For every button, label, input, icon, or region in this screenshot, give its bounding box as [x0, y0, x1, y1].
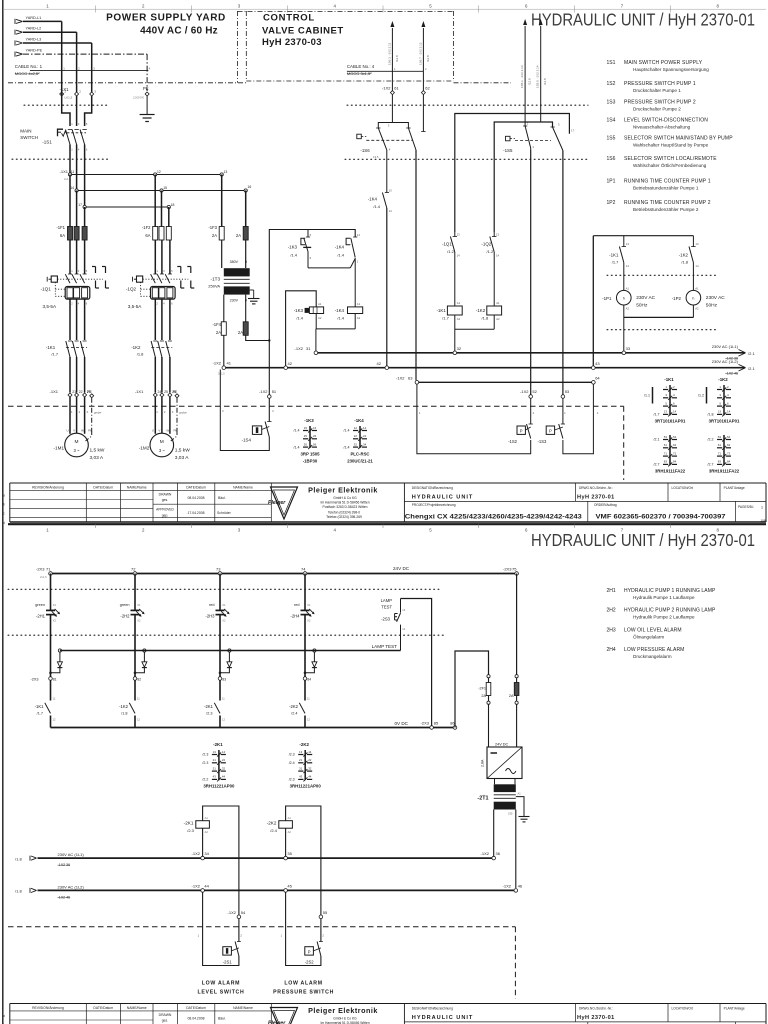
- svg-text:34: 34: [363, 442, 367, 446]
- svg-text:-1F4: -1F4: [212, 322, 221, 327]
- svg-text:/2.4: /2.4: [291, 712, 297, 716]
- svg-text:-2K1: -2K1: [184, 821, 194, 826]
- dotted separator: [607, 329, 718, 331]
- svg-text:45: 45: [287, 883, 292, 888]
- terminal -1X2 55: [319, 910, 328, 919]
- svg-text:/1.4: /1.4: [296, 315, 303, 320]
- svg-text:08.04.2008: 08.04.2008: [188, 1017, 205, 1021]
- svg-text:108: 108: [760, 518, 765, 522]
- svg-text:-1X2: -1X2: [481, 851, 490, 856]
- svg-text:72: 72: [131, 566, 136, 571]
- svg-text:3,03 A: 3,03 A: [90, 455, 104, 461]
- svg-text:NAME/Name: NAME/Name: [127, 485, 147, 489]
- svg-text:-1K1: -1K1: [609, 252, 619, 257]
- feed bracket A: [455, 114, 570, 233]
- svg-text:24V DC: 24V DC: [393, 566, 410, 571]
- svg-text:W: W: [81, 429, 84, 433]
- svg-text:12: 12: [157, 170, 161, 174]
- svg-text:CABLE No.: 1: CABLE No.: 1: [15, 64, 43, 69]
- svg-text:/1.8: /1.8: [482, 315, 489, 320]
- svg-text:-1K4: -1K4: [335, 245, 345, 250]
- svg-text:-1X2: -1X2: [259, 389, 268, 394]
- svg-text:gn/ye: gn/ye: [179, 411, 187, 415]
- svg-text:/2.3: /2.3: [289, 778, 295, 782]
- svg-text:PE: PE: [87, 390, 92, 394]
- svg-text:71: 71: [46, 566, 51, 571]
- svg-text:/1.8: /1.8: [15, 889, 22, 894]
- svg-text:HyH 2370-01: HyH 2370-01: [577, 1015, 615, 1021]
- svg-text:50Hz: 50Hz: [706, 302, 718, 308]
- ground at -2T1: [516, 797, 530, 822]
- svg-text:VALVE CABINET: VALVE CABINET: [262, 25, 344, 36]
- rail 230V AC (1L2) sheet2: [15, 884, 516, 899]
- terminal strip -2X3 71-74: [36, 566, 307, 579]
- svg-text:17.04.2008: 17.04.2008: [188, 511, 205, 515]
- contact table -1K1 main: [644, 377, 686, 424]
- svg-text:64: 64: [595, 375, 600, 380]
- svg-text:21: 21: [213, 758, 217, 762]
- svg-text:1P1: 1P1: [607, 179, 616, 185]
- svg-text:/1.4: /1.4: [337, 252, 344, 257]
- svg-text:/1.8: /1.8: [681, 259, 688, 264]
- svg-text:2H3: 2H3: [607, 628, 616, 634]
- svg-text:-1Q1: -1Q1: [41, 287, 52, 292]
- svg-text:/12.8: /12.8: [528, 78, 532, 85]
- svg-text:HYDRAULIC UNIT: HYDRAULIC UNIT: [412, 495, 474, 501]
- svg-text:-1X2 46: -1X2 46: [725, 371, 738, 375]
- svg-text:-2H2: -2H2: [120, 613, 130, 618]
- svg-text:-1X2 46: -1X2 46: [58, 895, 71, 899]
- svg-text:-2F1: -2F1: [478, 686, 486, 690]
- svg-text:/2.7: /2.7: [654, 463, 660, 467]
- svg-text:/1.4: /1.4: [294, 429, 300, 433]
- svg-text:NAME/Name: NAME/Name: [127, 1006, 147, 1010]
- svg-text:0: 0: [245, 260, 247, 264]
- svg-text:2H2: 2H2: [607, 608, 616, 614]
- dotted separator: [345, 158, 588, 160]
- remote wires -1S5: [520, 19, 547, 122]
- contactor main contacts -1K1: [46, 341, 87, 393]
- svg-text:82: 82: [137, 677, 141, 681]
- svg-text:LEVEL SWITCH: LEVEL SWITCH: [198, 989, 245, 995]
- svg-text:-1S1: -1S1: [42, 140, 52, 145]
- wire YARD-L2 to -1X1: [23, 32, 77, 70]
- svg-text:42: 42: [288, 361, 293, 366]
- isolating transformer -2T1: [477, 779, 521, 816]
- svg-text:A1: A1: [626, 286, 630, 290]
- svg-text:32: 32: [354, 442, 358, 446]
- svg-text:/1.8: /1.8: [137, 351, 144, 356]
- contact table -1K2 main: [698, 377, 740, 424]
- svg-text:/2.4: /2.4: [289, 761, 295, 765]
- svg-text:-2K1: -2K1: [204, 704, 214, 709]
- svg-text:14: 14: [695, 264, 699, 268]
- svg-text:71: 71: [664, 451, 668, 455]
- dotted separator: [8, 634, 445, 636]
- ground at -1T3: [248, 290, 260, 304]
- svg-text:1S5.5 -1X2 2.14: 1S5.5 -1X2 2.14: [536, 65, 540, 88]
- indicator lamp -2H3 (red): [205, 574, 229, 678]
- overload relay -1Q2 3,5-5A: [126, 267, 194, 309]
- running time counter -1P1: [602, 286, 656, 317]
- svg-text:-2X3: -2X3: [36, 566, 45, 571]
- legend sheet2: [607, 588, 716, 659]
- terminal strip -1X1 21-23 PE: [50, 389, 94, 398]
- svg-text:/2.1: /2.1: [748, 351, 755, 356]
- svg-text:52: 52: [532, 389, 537, 394]
- svg-text:/2.3: /2.3: [202, 753, 208, 757]
- svg-text:16: 16: [248, 185, 252, 189]
- fuse -2F1 2A: [478, 675, 491, 747]
- distribution row 11-12-13: [60, 169, 228, 181]
- pressure switch -1S2: [419, 411, 535, 444]
- svg-text:/1.1: /1.1: [644, 394, 650, 398]
- svg-text:-1K3: -1K3: [294, 308, 304, 313]
- lamp test diode branch -2H2: [134, 649, 147, 674]
- terminals -1X2 61 62: [382, 71, 430, 94]
- svg-text:44: 44: [222, 775, 226, 779]
- svg-text:1S6.7 -1X2 2.12: 1S6.7 -1X2 2.12: [418, 42, 422, 65]
- svg-text:75: 75: [512, 566, 517, 571]
- svg-text:Druckmangelalarm: Druckmangelalarm: [633, 654, 672, 659]
- svg-text:3,5-5A: 3,5-5A: [43, 304, 57, 309]
- svg-text:31: 31: [213, 766, 217, 770]
- svg-text:44: 44: [308, 775, 312, 779]
- svg-text:55: 55: [323, 910, 328, 915]
- svg-text:13: 13: [213, 750, 217, 754]
- svg-text:W: W: [166, 429, 169, 433]
- svg-text:A2: A2: [626, 307, 630, 311]
- svg-text:34: 34: [204, 851, 209, 856]
- svg-text:LOW ALARM: LOW ALARM: [202, 981, 240, 987]
- svg-text:DATE/Datum: DATE/Datum: [93, 485, 113, 489]
- svg-text:DRAWN: DRAWN: [159, 1013, 172, 1017]
- svg-text:HYDRAULIC UNIT: HYDRAULIC UNIT: [412, 1015, 474, 1021]
- svg-text:32: 32: [222, 766, 226, 770]
- svg-text:-1K4: -1K4: [335, 308, 345, 313]
- svg-text:55: 55: [304, 442, 308, 446]
- svg-text:-2H1: -2H1: [36, 613, 46, 618]
- svg-text:HYDRAULIC PUMP 2 RUNNING L: HYDRAULIC PUMP 2 RUNNING LAMP: [624, 608, 716, 614]
- svg-text:24V DC: 24V DC: [495, 743, 509, 747]
- svg-text:red: red: [209, 603, 215, 607]
- yard terminal YARD-PE: [15, 49, 43, 57]
- svg-text:YARD-PE: YARD-PE: [26, 49, 43, 53]
- wire -2T1 to terminal 46: [515, 810, 517, 889]
- svg-text:3,03 A: 3,03 A: [175, 455, 189, 461]
- svg-text:-1P1: -1P1: [602, 296, 612, 301]
- running time counter -1P2: [672, 286, 726, 317]
- svg-text:14: 14: [727, 410, 731, 414]
- svg-text:14: 14: [308, 750, 312, 754]
- svg-text:21: 21: [299, 758, 303, 762]
- svg-text:43: 43: [213, 775, 217, 779]
- sheet1 bottom ruler: [46, 524, 719, 532]
- counters feed bracket: [593, 235, 693, 237]
- svg-text:-1X2: -1X2: [228, 910, 237, 915]
- svg-text:230V AC: 230V AC: [636, 295, 655, 301]
- svg-text:-1X1: -1X1: [60, 169, 69, 174]
- wires fuses to overload -1Q2: [155, 240, 170, 274]
- svg-text:HYDRAULIC PUMP 1 RUNNING L: HYDRAULIC PUMP 1 RUNNING LAMP: [624, 588, 716, 594]
- svg-text:22: 22: [308, 758, 312, 762]
- svg-text:RUNNING TIME COUNTER PUMP 1: RUNNING TIME COUNTER PUMP 1: [624, 179, 711, 185]
- loop 63 to -1S2: [417, 384, 531, 454]
- svg-text:250VA: 250VA: [208, 284, 220, 289]
- svg-text:-2H4: -2H4: [290, 613, 300, 618]
- wire -1S5 pole1 to terminal 52: [530, 150, 532, 395]
- svg-text:/1.7: /1.7: [654, 413, 660, 417]
- counters bottom bracket: [624, 316, 694, 318]
- terminals -1X2 44 45 46: [192, 883, 523, 892]
- terminal -2X3 82: [133, 677, 141, 682]
- svg-text:3RH19111FA22: 3RH19111FA22: [709, 469, 740, 474]
- svg-text:DATE/Datum: DATE/Datum: [186, 1006, 206, 1010]
- svg-text:2A: 2A: [212, 233, 217, 238]
- svg-text:-1M1: -1M1: [54, 446, 65, 451]
- svg-text:33: 33: [626, 346, 631, 351]
- svg-text:/1.7: /1.7: [442, 315, 449, 320]
- svg-text:GmbH & Co KG: GmbH & Co KG: [333, 1016, 357, 1020]
- fuse 2A (secondary): [238, 295, 248, 336]
- distribution row 14-15-16: [70, 185, 251, 192]
- svg-text:P: P: [549, 429, 552, 434]
- svg-text:54: 54: [241, 910, 246, 915]
- dotted separator: [12, 158, 108, 160]
- relay contact -2K1 for -2H3: [204, 680, 225, 728]
- svg-text:Hydraulik Pumpe 2 Lauflampe: Hydraulik Pumpe 2 Lauflampe: [633, 615, 695, 620]
- svg-text:13: 13: [457, 233, 461, 237]
- svg-text:1: 1: [761, 506, 763, 510]
- svg-text:/1.2: /1.2: [698, 394, 704, 398]
- svg-text:V: V: [158, 429, 160, 433]
- indicator lamp -2H2 (green): [120, 574, 145, 678]
- svg-text:2,8A: 2,8A: [481, 759, 485, 767]
- svg-text:50Hz: 50Hz: [636, 302, 648, 308]
- svg-text:A1: A1: [457, 301, 461, 305]
- svg-text:M: M: [75, 439, 79, 445]
- svg-text:LK1,5: LK1,5: [65, 95, 73, 99]
- svg-text:54: 54: [727, 435, 731, 439]
- distribution row 17-18: [78, 203, 174, 209]
- svg-text:22: 22: [222, 758, 226, 762]
- svg-text:13.5: 13.5: [373, 155, 379, 159]
- svg-text:44: 44: [204, 883, 209, 888]
- svg-text:22: 22: [354, 434, 358, 438]
- svg-text:61: 61: [394, 86, 399, 91]
- svg-text:/1.4: /1.4: [294, 445, 300, 449]
- svg-text:LOW OIL LEVEL ALARM: LOW OIL LEVEL ALARM: [624, 628, 682, 634]
- svg-text:Druckschalter Pumpe 1: Druckschalter Pumpe 1: [633, 88, 681, 93]
- svg-text:3 ~: 3 ~: [74, 448, 80, 453]
- fuse -1F1 6A: [56, 225, 87, 240]
- svg-text:h: h: [623, 297, 625, 301]
- svg-text:RUNNING TIME COUNTER PUMP 2: RUNNING TIME COUNTER PUMP 2: [624, 200, 711, 206]
- wire -1F4 to terminal 41: [223, 335, 225, 366]
- svg-text:Postfach 3263 D-58423 Witten: Postfach 3263 D-58423 Witten: [323, 505, 368, 509]
- svg-text:/1.4: /1.4: [344, 445, 350, 449]
- svg-text:3RH19111FA22: 3RH19111FA22: [655, 469, 686, 474]
- svg-text:PRESSURE SWITCH PUMP 2: PRESSURE SWITCH PUMP 2: [624, 100, 696, 106]
- svg-text:1S2: 1S2: [607, 81, 616, 87]
- relay contact -1K4: [335, 233, 361, 263]
- svg-text:/1.7: /1.7: [51, 351, 58, 356]
- svg-text:SELECTOR SWITCH LOCAL/REMOTE: SELECTOR SWITCH LOCAL/REMOTE: [624, 156, 717, 162]
- svg-text:/1.7: /1.7: [37, 712, 43, 716]
- svg-text:-2T1: -2T1: [477, 795, 488, 801]
- branch 42 to coil bracket: [286, 291, 317, 366]
- cabinet dashed boundary: [8, 406, 624, 480]
- svg-text:-2K1: -2K1: [213, 742, 223, 747]
- svg-text:REVISION/Änderung: REVISION/Änderung: [32, 1006, 64, 1010]
- svg-text:PROJECT/Projektbezeichnung: PROJECT/Projektbezeichnung: [412, 503, 456, 507]
- rail 230V AC (1L2) 41-42-43: [213, 359, 756, 375]
- svg-text:ges.: ges.: [162, 1019, 168, 1023]
- svg-text:-1K1: -1K1: [664, 377, 674, 382]
- svg-text:84: 84: [673, 460, 677, 464]
- svg-text:62: 62: [425, 86, 430, 91]
- svg-text:15: 15: [304, 426, 308, 430]
- svg-text:gep.: gep.: [162, 513, 169, 517]
- svg-text:230V: 230V: [230, 299, 239, 303]
- svg-text:41: 41: [227, 361, 232, 366]
- svg-text:-1K1: -1K1: [35, 704, 45, 709]
- motor cable wires -1M2: [152, 397, 187, 434]
- svg-text:13: 13: [224, 170, 228, 174]
- svg-text:TEST: TEST: [381, 604, 392, 609]
- svg-text:-2H3: -2H3: [205, 613, 215, 618]
- svg-text:A1: A1: [357, 302, 361, 306]
- alarm switch -2S2: [281, 892, 325, 965]
- svg-text:HYDRAULIC UNIT / HyH 2370-0: HYDRAULIC UNIT / HyH 2370-01: [531, 10, 755, 30]
- svg-text:-1X1: -1X1: [50, 389, 59, 394]
- svg-text:1S6.3 -1X2 2.11: 1S6.3 -1X2 2.11: [387, 42, 391, 65]
- svg-text:ORDER/Auftrag: ORDER/Auftrag: [594, 503, 617, 507]
- svg-text:83: 83: [222, 677, 226, 681]
- dotted separator: [24, 104, 110, 106]
- terminal -1X2 54: [228, 910, 246, 919]
- svg-text:A1: A1: [496, 301, 500, 305]
- svg-text:A1: A1: [695, 286, 699, 290]
- svg-text:230V AC (1L1): 230V AC (1L1): [58, 852, 85, 857]
- svg-text:14: 14: [626, 264, 630, 268]
- svg-text:14: 14: [222, 750, 226, 754]
- svg-text:LAMP TEST: LAMP TEST: [372, 644, 398, 649]
- coil return to terminal 32: [455, 315, 494, 351]
- PE wire (dash-dot): [23, 54, 147, 91]
- svg-text:-1X2: -1X2: [295, 346, 304, 351]
- svg-text:-2S1: -2S1: [223, 960, 233, 965]
- svg-text:PLANT/Anlage: PLANT/Anlage: [724, 486, 745, 490]
- cable No.1 marker: [15, 64, 151, 76]
- svg-text:2A: 2A: [481, 694, 486, 698]
- svg-text:-1P2: -1P2: [672, 296, 682, 301]
- svg-text:3RH11221AP00: 3RH11221AP00: [203, 784, 235, 789]
- svg-text:2H4: 2H4: [607, 647, 616, 653]
- svg-text:24: 24: [363, 434, 367, 438]
- svg-text:2A: 2A: [238, 330, 243, 335]
- svg-text:53: 53: [718, 435, 722, 439]
- sheet separator: [8, 523, 766, 525]
- relay contact -1K2 for -2H2: [119, 680, 140, 728]
- svg-text:13: 13: [389, 189, 393, 193]
- contactor main contacts -1K2: [131, 341, 172, 393]
- svg-text:/1.2: /1.2: [487, 249, 494, 254]
- svg-text:1P2: 1P2: [607, 200, 616, 206]
- svg-text:DRAWN: DRAWN: [159, 492, 172, 496]
- contact table -1K2 aux: [708, 435, 740, 474]
- selector switch -1S6: [357, 95, 426, 159]
- svg-text:-1X2: -1X2: [503, 883, 512, 888]
- svg-text:NAME/Name: NAME/Name: [233, 485, 253, 489]
- pushbutton -2S3 LAMP TEST: [381, 598, 406, 651]
- svg-text:/2.7: /2.7: [708, 463, 714, 467]
- svg-text:-1K2: -1K2: [718, 377, 728, 382]
- svg-text:6A: 6A: [145, 233, 150, 238]
- svg-text:POWER SUPPLY YARD: POWER SUPPLY YARD: [106, 13, 226, 24]
- wires to -1X1 terminals: [62, 71, 92, 92]
- svg-text:-1Q2: -1Q2: [481, 241, 491, 246]
- svg-text:/1.8: /1.8: [708, 413, 714, 417]
- svg-text:13: 13: [718, 410, 722, 414]
- svg-text:A2: A2: [457, 317, 461, 321]
- svg-text:/1.4: /1.4: [290, 252, 297, 257]
- terminal -2X3 83: [218, 677, 226, 682]
- svg-text:31: 31: [299, 766, 303, 770]
- cabinet dashed boundary sheet2: [8, 927, 515, 999]
- svg-text:green: green: [35, 603, 45, 607]
- cable No.4 marker: [347, 64, 427, 76]
- svg-text:V: V: [73, 429, 75, 433]
- svg-text:2A: 2A: [216, 330, 221, 335]
- svg-text:-1X2: -1X2: [396, 376, 405, 381]
- low alarm captions: [198, 981, 335, 996]
- timer coil -1K3: [294, 302, 324, 321]
- svg-text:VMF 602365-602370 / 700394-70: VMF 602365-602370 / 700394-700397: [596, 513, 727, 520]
- svg-text:25: 25: [164, 390, 168, 394]
- svg-text:A2: A2: [496, 317, 500, 321]
- title block sheet1: [3, 483, 766, 525]
- svg-text:PE: PE: [173, 390, 178, 394]
- svg-text:12: 12: [354, 426, 358, 430]
- svg-text:Chengxi CX 4225/4233/4260/4235: Chengxi CX 4225/4233/4260/4235-4239/4242…: [405, 513, 583, 520]
- svg-text:X1: X1: [307, 603, 311, 607]
- svg-text:LEVEL SWITCH-DISCONNECTION: LEVEL SWITCH-DISCONNECTION: [624, 118, 708, 124]
- lamp test diode branch -2H4: [304, 649, 317, 674]
- svg-text:24: 24: [158, 390, 162, 394]
- wire YARD-L1 to -1X1: [23, 21, 62, 70]
- svg-text:15: 15: [163, 186, 167, 190]
- svg-text:1S1: 1S1: [607, 60, 616, 66]
- contact table -2K1 aux: [202, 742, 235, 789]
- svg-text:84: 84: [727, 460, 731, 464]
- feed bracket B: [494, 122, 552, 232]
- svg-text:73: 73: [216, 566, 221, 571]
- svg-text:440V AC / 60 Hz: 440V AC / 60 Hz: [140, 26, 218, 37]
- svg-text:31: 31: [306, 346, 311, 351]
- svg-text:72: 72: [727, 451, 731, 455]
- svg-text:-1K2: -1K2: [119, 704, 129, 709]
- svg-text:-1S3: -1S3: [538, 439, 548, 444]
- svg-text:LAMP: LAMP: [381, 598, 393, 603]
- svg-text:-1S6: -1S6: [360, 148, 370, 153]
- svg-text:h: h: [692, 297, 694, 301]
- svg-text:PLC-RSC: PLC-RSC: [350, 451, 369, 456]
- svg-text:A1: A1: [518, 791, 522, 795]
- svg-text:-1S4: -1S4: [242, 438, 252, 443]
- svg-text:/2.1: /2.1: [748, 366, 755, 371]
- svg-text:14: 14: [70, 186, 74, 190]
